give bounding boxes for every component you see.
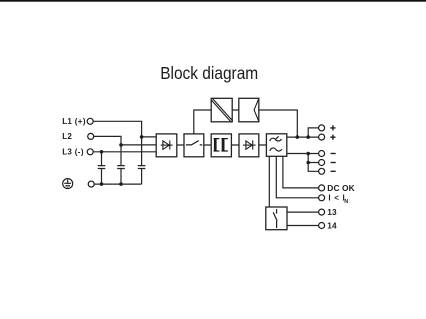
svg-text:N: N — [344, 199, 348, 205]
svg-text:L1 (+): L1 (+) — [62, 117, 86, 126]
svg-text:I < I: I < I — [328, 193, 345, 202]
svg-text:L2: L2 — [62, 132, 72, 141]
svg-text:L3 (-): L3 (-) — [62, 147, 84, 156]
svg-text:DC OK: DC OK — [327, 183, 355, 193]
svg-text:Block diagram: Block diagram — [160, 63, 258, 83]
svg-text:14: 14 — [327, 220, 337, 230]
svg-text:13: 13 — [327, 207, 337, 217]
